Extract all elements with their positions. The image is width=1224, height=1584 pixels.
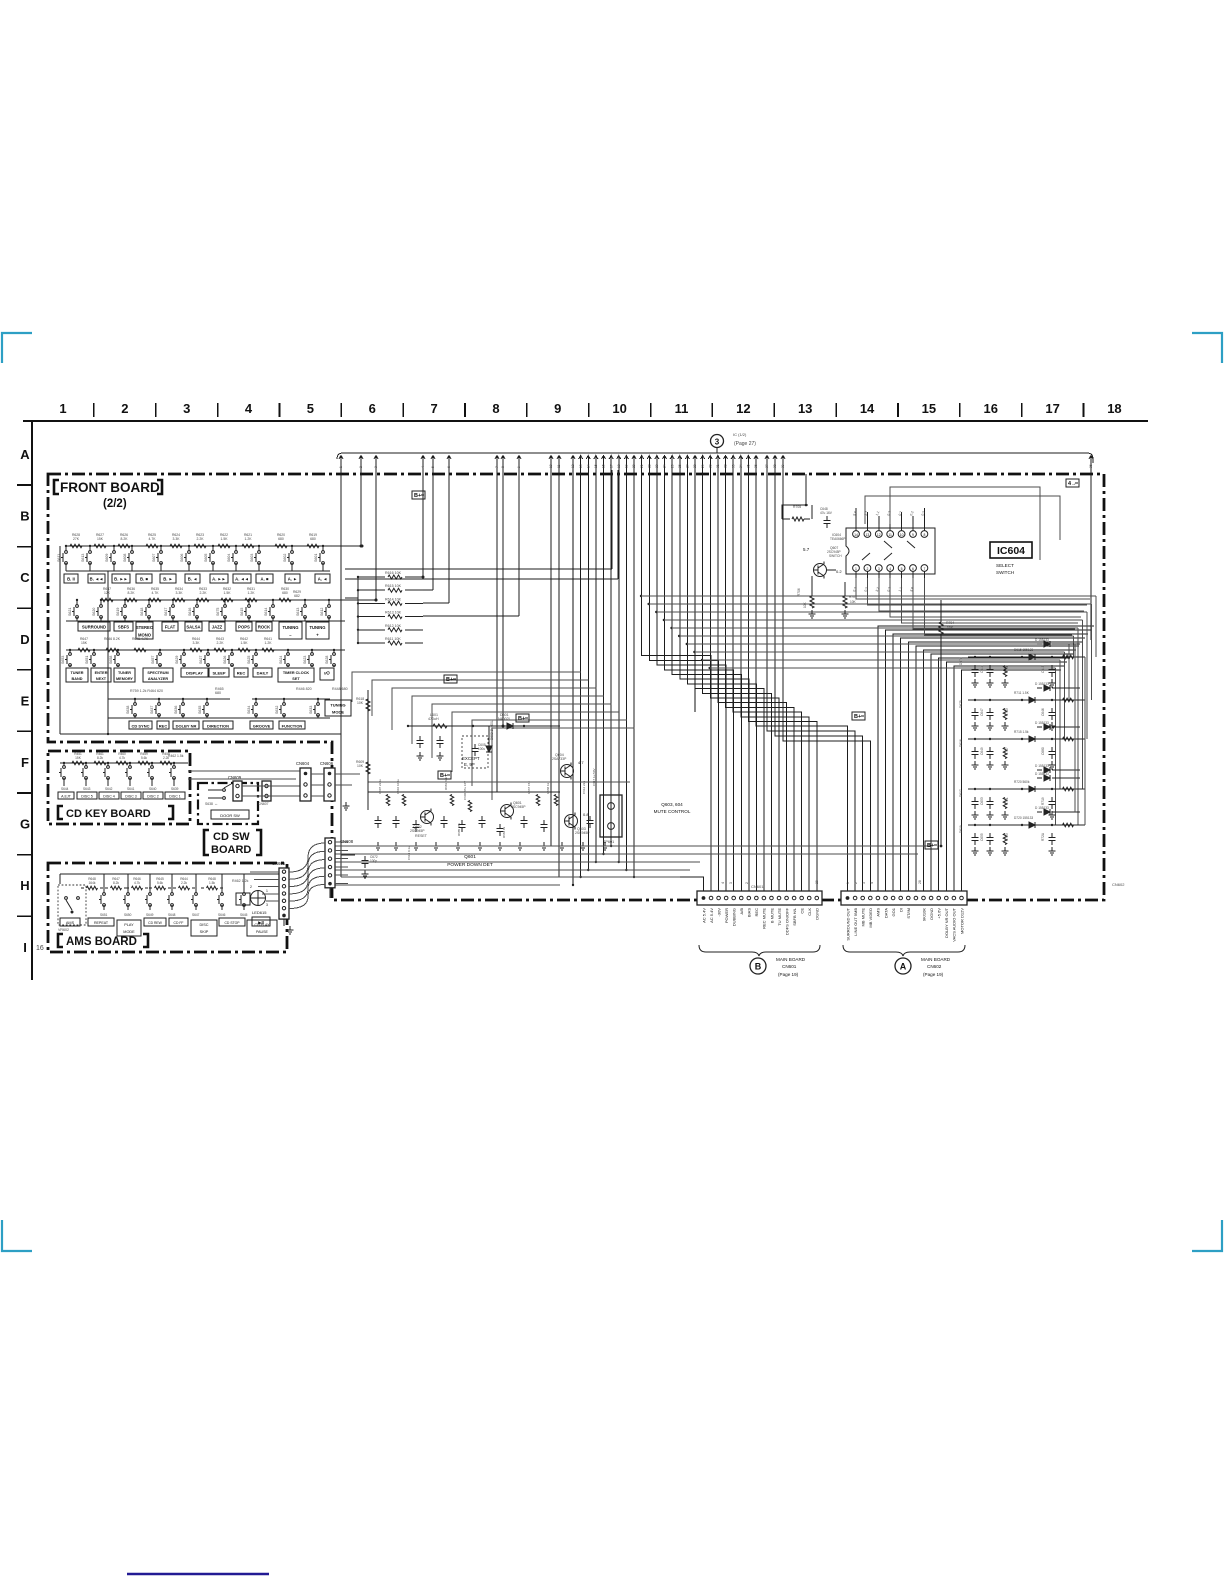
switch S638 xyxy=(134,699,136,703)
svg-text:2: 2 xyxy=(250,885,252,889)
svg-text:3: 3 xyxy=(183,401,190,416)
svg-text:D 155133: D 155133 xyxy=(1035,638,1049,642)
switch S619 xyxy=(124,600,126,605)
svg-text:R717: R717 xyxy=(1005,747,1009,755)
svg-text:9: 9 xyxy=(912,533,914,537)
svg-text:2SC945P: 2SC945P xyxy=(575,831,590,835)
filter row at y=789 xyxy=(968,788,1085,790)
svg-text:1: 1 xyxy=(855,567,857,571)
svg-text:FRONT BOARD: FRONT BOARD xyxy=(60,480,160,495)
resistor R616 10K xyxy=(358,576,385,578)
svg-text:S601: S601 xyxy=(314,554,318,562)
svg-text:S604: S604 xyxy=(227,554,231,562)
dashed capacitor C605 except xyxy=(462,736,488,768)
svg-text:EXCEPT: EXCEPT xyxy=(462,756,480,761)
button cap SPECTRUM xyxy=(143,668,173,682)
button cap DISC 1 xyxy=(165,792,185,799)
switch S642 xyxy=(107,763,109,766)
svg-text:B+: B+ xyxy=(927,843,934,849)
curved wires CN605 to CN608 xyxy=(289,843,325,872)
capacitor C648 47u 16V xyxy=(826,516,828,521)
button cap SLEEP xyxy=(209,668,229,677)
svg-text:680: 680 xyxy=(310,537,316,541)
svg-text:8.2k: 8.2k xyxy=(97,756,103,760)
transistor Q603 2SC945P xyxy=(565,815,578,828)
resistor R644 xyxy=(190,648,202,652)
svg-text:MOTOR D12V: MOTOR D12V xyxy=(959,908,964,934)
resistor R614 10K xyxy=(358,602,385,604)
button cap B. ◄ xyxy=(185,574,200,583)
svg-text:33: 33 xyxy=(731,464,735,468)
button cap A. ◄◄ xyxy=(233,574,251,583)
wire pin11 down xyxy=(558,470,560,877)
switch S648 xyxy=(171,874,173,893)
switch S639 xyxy=(173,763,175,766)
resistor R707 10K xyxy=(843,596,847,608)
resistor R647 8.2k xyxy=(111,886,122,890)
svg-text:4.7K: 4.7K xyxy=(149,537,157,541)
svg-text:SLEEP: SLEEP xyxy=(212,671,225,676)
svg-text:4.7k: 4.7k xyxy=(134,881,140,885)
svg-text:E, 9P: E, 9P xyxy=(464,762,475,767)
wire pin5 to resistor R615 xyxy=(432,470,434,590)
svg-text:(Page 27): (Page 27) xyxy=(734,441,756,447)
svg-text:680: 680 xyxy=(215,691,221,695)
wire pin9 down xyxy=(518,470,520,616)
svg-text:DOOR SW: DOOR SW xyxy=(220,813,240,818)
resistor R637 12K xyxy=(101,598,113,602)
svg-text:B: B xyxy=(755,962,762,972)
svg-text:28: 28 xyxy=(693,464,697,468)
boxed label 4+ top right xyxy=(1066,479,1079,487)
svg-text:S612: S612 xyxy=(320,608,324,616)
button cap DISC 4 xyxy=(99,792,119,799)
switch S645 xyxy=(243,874,245,893)
svg-text:DISPLAY: DISPLAY xyxy=(186,671,203,676)
svg-text:MUTE CONTROL: MUTE CONTROL xyxy=(654,809,691,814)
resistor R613 10K xyxy=(358,616,385,618)
svg-text:CD REW: CD REW xyxy=(148,921,163,925)
matrix bottom wire xyxy=(60,733,341,735)
svg-text:3.3K: 3.3K xyxy=(176,591,184,595)
svg-text:S650: S650 xyxy=(124,913,132,917)
svg-text:R707: R707 xyxy=(849,595,857,599)
svg-text:C606 47u 16V: C606 47u 16V xyxy=(463,781,467,800)
lower horizontal bus wires to connectors xyxy=(335,845,930,847)
svg-text:S607: S607 xyxy=(152,554,156,562)
svg-text:5: 5 xyxy=(901,567,903,571)
svg-text:DATA: DATA xyxy=(883,908,888,918)
svg-text:R713: R713 xyxy=(1005,708,1009,716)
svg-text:4: 4 xyxy=(245,401,253,416)
svg-text:1.2K: 1.2K xyxy=(248,591,256,595)
svg-text:AMS BOARD: AMS BOARD xyxy=(66,936,137,948)
IC604 bottom pin circles 1-7 xyxy=(853,565,860,572)
svg-text:B. ◄◄: B. ◄◄ xyxy=(90,577,104,582)
svg-text:2: 2 xyxy=(359,466,363,468)
svg-text:S638: S638 xyxy=(126,706,130,714)
svg-text:Q603, 604: Q603, 604 xyxy=(661,802,683,807)
resistor R648 164k xyxy=(87,886,98,890)
svg-text:S615: S615 xyxy=(240,608,244,616)
transistor Q607 xyxy=(814,564,827,577)
svg-text:C645: C645 xyxy=(1041,665,1045,673)
svg-text:4: 4 xyxy=(421,466,425,468)
svg-text:16: 16 xyxy=(984,401,998,416)
switch S604 xyxy=(235,546,237,551)
svg-text:S653: S653 xyxy=(61,656,65,664)
crop mark bottom-right xyxy=(1192,1220,1222,1251)
circled A main board CN602 xyxy=(895,958,911,974)
svg-text:4.7k: 4.7k xyxy=(119,756,125,760)
svg-text:MEMORY: MEMORY xyxy=(116,677,133,681)
svg-text:B. ►: B. ► xyxy=(163,577,173,582)
svg-text:S658: S658 xyxy=(109,656,113,664)
svg-text:30: 30 xyxy=(708,464,712,468)
svg-text:S643: S643 xyxy=(83,787,91,791)
wire pin1 route to CN601 pin1 xyxy=(341,877,704,891)
svg-text:1.5k: 1.5k xyxy=(209,881,215,885)
svg-text:S639: S639 xyxy=(171,787,179,791)
svg-text:100u: 100u xyxy=(478,747,485,751)
potentiometer VR602 AMS dotted xyxy=(58,885,86,925)
switch S613 xyxy=(304,600,306,605)
button cap JAZZ xyxy=(209,622,225,631)
brace under CN601 xyxy=(699,945,820,956)
svg-text:A: A xyxy=(900,962,907,972)
svg-text:2.2K: 2.2K xyxy=(200,591,208,595)
svg-text:1: 1 xyxy=(266,889,268,893)
svg-text:CN606: CN606 xyxy=(320,761,334,766)
IC604 top pin circles 14-8 xyxy=(853,531,860,538)
svg-text:C612 22u: C612 22u xyxy=(582,781,586,794)
svg-text:POWER DOWN DET: POWER DOWN DET xyxy=(447,862,493,868)
switch S624 xyxy=(287,650,289,653)
svg-text:DDFS ON/OFF: DDFS ON/OFF xyxy=(784,907,789,935)
svg-text:3: 3 xyxy=(862,882,866,884)
row4 wire xyxy=(108,717,330,719)
wire pin4 to resistor R616 xyxy=(422,470,424,577)
svg-text:1.5K: 1.5K xyxy=(224,591,232,595)
switch S636 xyxy=(182,699,184,703)
power bus with L601 and D601 xyxy=(408,725,560,727)
svg-text:TUNER: TUNER xyxy=(70,671,83,675)
svg-text:S644: S644 xyxy=(61,787,69,791)
svg-text:D619: D619 xyxy=(959,825,963,833)
svg-text:TUNING: TUNING xyxy=(309,625,325,630)
svg-text:PLAY: PLAY xyxy=(124,923,134,927)
button cap DOLBY NR xyxy=(173,721,199,729)
switch S601 xyxy=(322,546,324,551)
resistor R619 680 xyxy=(307,544,319,548)
svg-text:R705: R705 xyxy=(793,505,801,509)
svg-text:29: 29 xyxy=(701,464,705,468)
svg-text:4: 4 xyxy=(870,882,874,884)
svg-text:S646: S646 xyxy=(218,913,226,917)
svg-text:4→: 4→ xyxy=(1068,481,1077,487)
resistor R628 27K xyxy=(70,544,82,548)
switch S647 xyxy=(195,874,197,893)
svg-text:S675: S675 xyxy=(216,608,220,616)
resistor R646 8.2K xyxy=(106,648,118,652)
svg-text:2SC945P: 2SC945P xyxy=(410,829,425,833)
upper right nested wires from IC604 xyxy=(856,578,1090,599)
svg-text:12: 12 xyxy=(736,401,750,416)
switch S618 xyxy=(148,600,150,605)
svg-text:11: 11 xyxy=(675,401,689,416)
svg-text:36: 36 xyxy=(1089,464,1093,468)
button cap A.EJT xyxy=(58,792,74,799)
svg-text:23: 23 xyxy=(655,464,659,468)
svg-text:S640: S640 xyxy=(149,787,157,791)
svg-text:GROOVE: GROOVE xyxy=(253,723,271,728)
svg-text:24: 24 xyxy=(663,464,667,468)
svg-text:D 155133: D 155133 xyxy=(1035,721,1049,725)
svg-text:2SA733P: 2SA733P xyxy=(552,757,567,761)
svg-text:S605: S605 xyxy=(204,554,208,562)
svg-text:2: 2 xyxy=(745,882,749,884)
svg-text:LED615: LED615 xyxy=(252,910,267,915)
svg-text:18: 18 xyxy=(617,464,621,468)
AMS wires to CN605 xyxy=(250,871,279,873)
svg-text:D675: D675 xyxy=(959,700,963,708)
svg-text:1.2K: 1.2K xyxy=(245,537,253,541)
svg-text:680: 680 xyxy=(278,537,284,541)
svg-text:CN607: CN607 xyxy=(258,802,269,806)
switch S638 door switch xyxy=(208,789,222,791)
svg-text:DOLBY NR OUT: DOLBY NR OUT xyxy=(944,907,949,937)
switch S609 xyxy=(113,546,115,551)
svg-text:10: 10 xyxy=(612,401,626,416)
resistor R625 4.7K xyxy=(146,544,158,548)
button cap DISPLAY xyxy=(181,668,208,677)
AMS button labels xyxy=(60,918,80,926)
resistor R644 2.2k xyxy=(179,886,190,890)
svg-text:B. ►►: B. ►► xyxy=(114,577,128,582)
wire pin10 down xyxy=(550,470,552,846)
button cap TUNER xyxy=(66,668,88,682)
svg-text:AC 5.4V: AC 5.4V xyxy=(701,908,706,923)
svg-text:D 155133: D 155133 xyxy=(1035,682,1049,686)
wire pin2 to row1 bus xyxy=(360,470,362,546)
right vertical rail xyxy=(1084,657,1086,825)
wire pin8 down xyxy=(502,470,504,726)
svg-text:4: 4 xyxy=(721,882,725,884)
svg-text:DISC 2: DISC 2 xyxy=(147,795,159,799)
switch S643 xyxy=(85,763,87,766)
svg-text:5.7: 5.7 xyxy=(803,547,810,552)
svg-text:ST/IM: ST/IM xyxy=(906,908,911,919)
switch S633 xyxy=(317,699,319,703)
svg-text:1N4002L: 1N4002L xyxy=(496,717,511,721)
svg-text:DUBBING: DUBBING xyxy=(732,908,737,926)
svg-text:R616 10K: R616 10K xyxy=(385,571,402,575)
svg-text:D: D xyxy=(20,632,29,647)
svg-text:CD SW: CD SW xyxy=(213,831,250,843)
svg-text:S602: S602 xyxy=(283,554,287,562)
button cap DISC 3 xyxy=(121,792,141,799)
switch S616 xyxy=(196,600,198,605)
svg-text:R759 1.2k R464 620: R759 1.2k R464 620 xyxy=(130,689,163,693)
svg-text:CN602: CN602 xyxy=(927,964,942,969)
svg-text:C610 100u: C610 100u xyxy=(396,779,400,794)
resistor R622 1.5K xyxy=(218,544,230,548)
svg-text:SET: SET xyxy=(292,677,300,681)
svg-text:1: 1 xyxy=(846,882,850,884)
button cap B. ◄◄ xyxy=(88,574,105,583)
svg-text:9: 9 xyxy=(517,466,521,468)
svg-text:R611 10K: R611 10K xyxy=(385,637,401,641)
svg-text:D674: D674 xyxy=(959,657,963,665)
svg-text:2.2k: 2.2k xyxy=(181,881,187,885)
svg-text:SPECTRUM: SPECTRUM xyxy=(147,671,168,675)
switch S615 xyxy=(248,600,250,605)
switch S629 xyxy=(183,650,185,653)
svg-text:2: 2 xyxy=(121,401,128,416)
svg-text:D 155133: D 155133 xyxy=(1035,772,1049,776)
top ruler line xyxy=(23,420,1148,422)
CD KEY BOARD outline (dash-dot) xyxy=(48,751,190,824)
svg-text:B MUTE: B MUTE xyxy=(769,908,774,923)
svg-text:S617: S617 xyxy=(164,608,168,616)
svg-text:7: 7 xyxy=(430,401,437,416)
svg-text:R612 10K: R612 10K xyxy=(385,624,402,628)
svg-text:2SC945P: 2SC945P xyxy=(511,805,526,809)
svg-text:MODE: MODE xyxy=(123,930,135,934)
svg-text:B: B xyxy=(20,509,29,524)
switch matrix row4 bus xyxy=(108,698,230,700)
svg-text:Q601: Q601 xyxy=(464,854,476,860)
svg-text:S628: S628 xyxy=(325,656,329,664)
svg-text:CN601: CN601 xyxy=(751,884,764,889)
svg-text:(Page 19): (Page 19) xyxy=(923,972,944,977)
svg-text:27: 27 xyxy=(686,464,690,468)
svg-text:R684 1k: R684 1k xyxy=(502,826,506,838)
svg-text:S645: S645 xyxy=(240,913,248,917)
svg-text:TEA0666P: TEA0666P xyxy=(830,537,845,541)
svg-text:8.2K: 8.2K xyxy=(121,537,129,541)
svg-text:DISC 5: DISC 5 xyxy=(81,795,93,799)
svg-text:CLK: CLK xyxy=(807,908,812,916)
left ruler line xyxy=(31,421,33,980)
resistor R460 4.7k xyxy=(116,761,128,765)
switch matrix row3 bus xyxy=(66,649,345,651)
svg-text:R719: R719 xyxy=(1041,797,1045,805)
switch matrix row2 bus xyxy=(100,599,376,601)
svg-text:R613 10K: R613 10K xyxy=(385,611,402,615)
svg-text:VACS AUDIO OUT: VACS AUDIO OUT xyxy=(952,907,957,941)
switch S602 xyxy=(291,546,293,551)
svg-text:4.7: 4.7 xyxy=(578,760,584,765)
svg-text:D 155133: D 155133 xyxy=(1035,764,1049,768)
svg-text:R462 1.2k: R462 1.2k xyxy=(232,879,249,883)
svg-text:R730: R730 xyxy=(1005,665,1009,673)
svg-text:R681 47k: R681 47k xyxy=(444,777,448,790)
svg-text:R646 8.2K: R646 8.2K xyxy=(104,637,121,641)
svg-text:S636: S636 xyxy=(174,706,178,714)
svg-text:DGND: DGND xyxy=(815,908,820,920)
CD SW BOARD outline (dash-dot) xyxy=(198,783,258,824)
svg-text:I: I xyxy=(23,940,27,955)
left routing wires to switch matrix xyxy=(611,470,613,569)
diodes above filter rows xyxy=(1044,641,1050,647)
svg-text:G: G xyxy=(20,817,30,832)
resistor R621 1.2K xyxy=(242,544,254,548)
svg-text:2.2K: 2.2K xyxy=(197,537,205,541)
resistor R705 xyxy=(792,517,804,521)
boxed label B+ mid right xyxy=(852,712,865,720)
svg-text:NEXT: NEXT xyxy=(96,677,107,681)
svg-text:S637: S637 xyxy=(150,706,154,714)
svg-text:C646: C646 xyxy=(1041,708,1045,716)
svg-text:37: 37 xyxy=(765,464,769,468)
svg-text:5.6k: 5.6k xyxy=(157,881,163,885)
svg-text:26: 26 xyxy=(678,464,682,468)
switch S675 xyxy=(224,600,226,605)
resistor R633 2.2K xyxy=(197,598,209,602)
svg-text:S642: S642 xyxy=(105,787,113,791)
svg-text:0.2: 0.2 xyxy=(836,569,842,574)
switch S608 xyxy=(131,546,133,551)
svg-text:IC604: IC604 xyxy=(997,545,1025,557)
svg-text:DISC 3: DISC 3 xyxy=(125,795,137,799)
svg-text:C614 0.1u: C614 0.1u xyxy=(407,846,411,860)
svg-text:680: 680 xyxy=(282,591,288,595)
svg-text:15: 15 xyxy=(922,401,936,416)
svg-text:7: 7 xyxy=(495,466,499,468)
resistor R632 1.5K xyxy=(221,598,233,602)
svg-text:S614: S614 xyxy=(264,608,268,616)
svg-text:C649: C649 xyxy=(980,747,984,755)
capacitor C603 xyxy=(419,736,421,741)
right routing wires to filter rows xyxy=(640,595,642,597)
switch S641 xyxy=(129,763,131,766)
svg-text:3.3K: 3.3K xyxy=(173,537,181,541)
svg-text:A. ►►: A. ►► xyxy=(212,577,226,582)
switch S657 xyxy=(159,650,161,653)
svg-text:47u 16V: 47u 16V xyxy=(820,511,833,515)
interconnect bus to IC 1/2 page 27 xyxy=(337,453,1093,463)
svg-text:DI: DI xyxy=(899,908,904,912)
switch S649 xyxy=(149,874,151,893)
transistor Q604 2SA783P xyxy=(561,765,574,778)
svg-text:S649: S649 xyxy=(146,913,154,917)
svg-text:17: 17 xyxy=(609,464,613,468)
svg-text:C655: C655 xyxy=(980,833,984,841)
svg-text:BAND: BAND xyxy=(72,677,83,681)
svg-text:D720 155133: D720 155133 xyxy=(1014,816,1033,820)
svg-text:CD KEY BOARD: CD KEY BOARD xyxy=(66,808,151,820)
transistor Q601 2SC945P xyxy=(501,805,514,818)
button cap TIMER CLOCK xyxy=(278,668,314,682)
svg-text:DISC 4: DISC 4 xyxy=(103,795,115,799)
svg-text:B+: B+ xyxy=(854,714,861,720)
resistor R704 10K xyxy=(939,622,943,634)
svg-text:R720 560k: R720 560k xyxy=(1014,780,1030,784)
svg-text:IC (1/2): IC (1/2) xyxy=(733,432,747,437)
resistor R626 8.2K xyxy=(118,544,130,548)
svg-text:BOARD: BOARD xyxy=(211,844,251,856)
button cap SALSA xyxy=(185,622,202,631)
resistor R645 5.6k xyxy=(155,886,166,890)
button cap ENTER xyxy=(91,668,111,682)
svg-text:4.7K: 4.7K xyxy=(152,591,160,595)
svg-text:CD FF: CD FF xyxy=(174,921,184,925)
switch S627 xyxy=(207,650,209,653)
resistor R624 3.3K xyxy=(170,544,182,548)
svg-text:R704: R704 xyxy=(946,621,954,625)
svg-text:9: 9 xyxy=(554,401,561,416)
